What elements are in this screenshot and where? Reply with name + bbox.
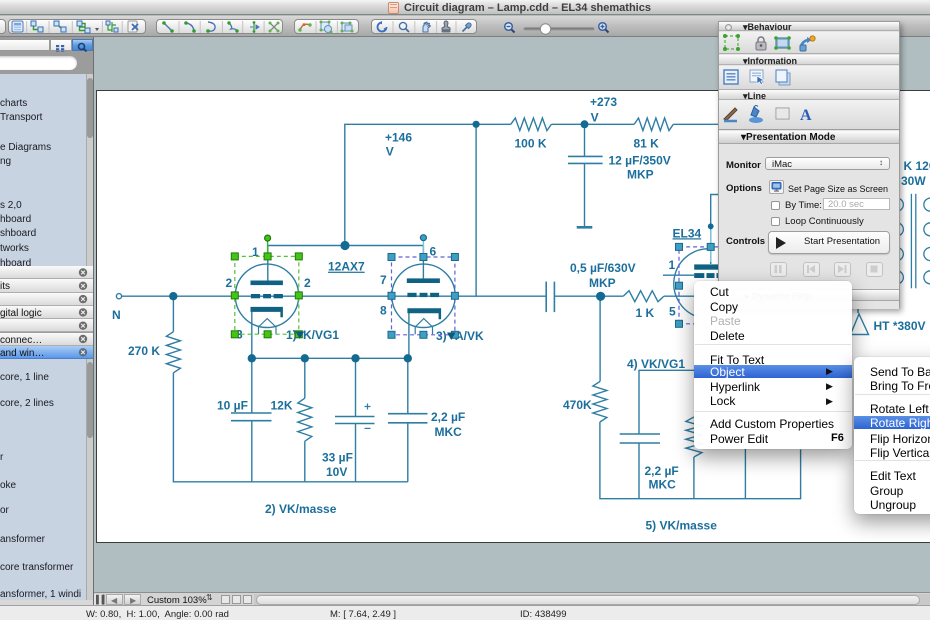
- svg-text:30W: 30W: [901, 174, 926, 188]
- selection V2 rotation stem: [422, 241, 424, 257]
- wire plate rail y245: [268, 245, 424, 247]
- tube V1 heater chevron: [259, 319, 277, 335]
- svg-text:MKP: MKP: [589, 276, 616, 290]
- tube V2 grid dashes: [407, 293, 416, 297]
- wire C 0.5uF to node: [555, 295, 601, 297]
- wire 33uF bottom: [355, 424, 357, 482]
- wire input node down to 270K: [172, 296, 174, 332]
- sidebar: [0, 37, 94, 604]
- svg-text:270 K: 270 K: [128, 344, 160, 358]
- connector zigzag: [77, 21, 99, 33]
- node dot cath1: [248, 354, 256, 362]
- svg-text:MKP: MKP: [627, 168, 654, 182]
- wire 270K to bottom left rail: [173, 373, 407, 482]
- svg-text:V: V: [591, 111, 599, 125]
- svg-text:7: 7: [380, 273, 387, 287]
- svg-text:0,5 µF/630V: 0,5 µF/630V: [570, 261, 636, 275]
- tube V2 12AX7b circle: [392, 264, 455, 327]
- svg-text:MKC: MKC: [649, 478, 677, 492]
- wire left plate lead: [267, 246, 269, 281]
- wire EL34 top cap: [711, 195, 719, 265]
- svg-text:+273: +273: [590, 95, 617, 109]
- Presentation Mode section: [719, 131, 899, 144]
- tube V2 cathode lead: [408, 311, 410, 358]
- selection V1 rotation stem: [267, 241, 269, 256]
- cathode arrow V2: [447, 333, 456, 341]
- wire 100K to node273: [551, 123, 584, 125]
- wire 470K to bottom rail: [600, 422, 639, 499]
- node dot cath3: [351, 354, 359, 362]
- wire cathode resistor to rail: [693, 457, 695, 499]
- tube V2 plate bar: [407, 278, 440, 283]
- wire vertical 476 down: [475, 124, 477, 296]
- curve tool: [184, 21, 196, 33]
- Dynamic Help collapsed: [719, 289, 899, 301]
- wire node to 1K: [601, 295, 624, 297]
- wire 12K top: [304, 358, 306, 398]
- submenu: [854, 357, 930, 514]
- floating palette: [718, 21, 900, 309]
- svg-text:+146: +146: [385, 131, 412, 145]
- svg-text:81 K: 81 K: [634, 137, 660, 151]
- capacitor C 33uF/10V polarized: [335, 416, 375, 418]
- svg-text:470K: 470K: [563, 398, 592, 412]
- svg-text:10 µF: 10 µF: [217, 399, 248, 413]
- wire C 12uF to ground: [584, 164, 586, 227]
- segmented control: [0, 39, 50, 51]
- connector elbow: [31, 21, 43, 32]
- node dot plate rail: [340, 241, 349, 250]
- sidebar right border: [93, 37, 94, 605]
- selection V3 dashed box: [679, 247, 719, 324]
- connector straight: [54, 21, 66, 32]
- bezier tool: [227, 21, 238, 32]
- terminal input N: [116, 294, 121, 299]
- svg-text:100 K: 100 K: [515, 137, 547, 151]
- svg-text:K/VG1: K/VG1: [303, 328, 339, 342]
- node dot cath2: [301, 354, 309, 362]
- svg-text:EL34: EL34: [673, 226, 702, 240]
- capacitor C 10uF: [231, 412, 272, 414]
- resistor R 81K: [634, 118, 673, 131]
- svg-text:2) VK/masse: 2) VK/masse: [265, 502, 337, 516]
- wire 33uF top: [355, 358, 357, 416]
- svg-text:3): 3): [436, 329, 447, 343]
- polarity plus 33uF: [365, 404, 371, 410]
- wire bottom rail right: [639, 450, 801, 499]
- wire 12K bottom: [304, 441, 306, 482]
- resistor R 100K: [511, 118, 552, 131]
- white page: [96, 90, 930, 543]
- window icon: [12, 21, 23, 32]
- capacitor C 12uF/350V: [568, 155, 603, 157]
- svg-text:N: N: [112, 308, 121, 322]
- magnifier: [399, 22, 409, 32]
- svg-text:V: V: [386, 145, 394, 159]
- resistor R 470K: [593, 382, 607, 423]
- tube V2 cathode bar: [407, 308, 441, 319]
- node dot input: [169, 292, 177, 300]
- wire node273 down to C 12uF: [584, 124, 586, 156]
- list top: [0, 74, 86, 266]
- cathode arrow V1: [296, 332, 305, 340]
- wire grid tap 4): [639, 370, 694, 434]
- selection V1 handles: [231, 253, 302, 338]
- tube V1 plate bar: [251, 281, 283, 286]
- slider: [525, 27, 593, 30]
- node dot EL34 top: [708, 223, 714, 229]
- wire node273 to 81K: [585, 123, 635, 125]
- wire input rail: [121, 295, 476, 297]
- search pill: [0, 52, 94, 74]
- line tool: [162, 21, 174, 33]
- section header rows: [0, 266, 94, 359]
- svg-text:HT *380V: HT *380V: [874, 319, 926, 333]
- svg-text:5) VK/masse: 5) VK/masse: [646, 519, 718, 533]
- hand: [423, 22, 430, 32]
- svg-text:5: 5: [669, 305, 676, 319]
- capacitor C 2.2uF MKC right: [620, 433, 660, 435]
- scissors: [269, 22, 280, 33]
- node dot cath4: [404, 354, 412, 362]
- node dot 0.5uF out: [596, 292, 605, 301]
- split tool: [250, 21, 259, 33]
- wire C 2.2uF to bottom rail: [638, 443, 640, 499]
- capacitor C 0.5uF/630V: [545, 282, 547, 313]
- selection V3 handles: [676, 243, 715, 327]
- resistor R 270K: [166, 332, 180, 373]
- resistor R 1K: [623, 291, 664, 302]
- wire top rail: [345, 124, 476, 244]
- eyedropper: [463, 23, 472, 32]
- selection V1 dashed box: [235, 256, 299, 334]
- title bar: [0, 0, 930, 15]
- reshape 2: [320, 21, 333, 34]
- tube V1 grid dashes: [251, 294, 260, 298]
- selection V2 handles: [388, 254, 458, 339]
- transformer T1 core: [910, 194, 912, 288]
- svg-text:K 120: K 120: [904, 159, 930, 173]
- selection V1 rotation knob: [265, 235, 271, 241]
- tube V1 12AX7a circle: [235, 264, 298, 327]
- resistor R 12K: [298, 398, 312, 441]
- zoom minus magnifier: [505, 23, 515, 33]
- tube V3 EL34 circle arc: [674, 249, 710, 317]
- svg-text:10V: 10V: [326, 465, 347, 479]
- zoom plus magnifier: [599, 23, 609, 33]
- transformer T1 right winding: [924, 198, 930, 284]
- wire 2.2uF left top: [407, 358, 409, 413]
- bottom scrollbar row: [94, 592, 930, 605]
- resistor EL34 cathode hidden: [686, 417, 702, 457]
- terminal HT triangle: [851, 314, 869, 335]
- svg-text:1: 1: [669, 258, 676, 272]
- svg-text:MKC: MKC: [435, 425, 463, 439]
- reshape 3: [341, 22, 354, 33]
- selection V3 rotation stem: [710, 230, 712, 263]
- selection V2 rotation knob: [420, 235, 426, 241]
- svg-text:8: 8: [380, 304, 387, 318]
- wire node476 to 100K: [476, 123, 511, 125]
- wire 476 corner to C 0.5uF: [476, 295, 546, 297]
- svg-text:33 µF: 33 µF: [322, 451, 353, 465]
- tube V3 grid dashes: [694, 273, 704, 278]
- wire C 10uF to rail: [251, 421, 253, 482]
- status bar: [0, 605, 930, 620]
- tube V2 heater chevron: [415, 319, 432, 335]
- wire left cathode down: [251, 311, 253, 413]
- wire hidden cap to rail: [744, 449, 746, 499]
- svg-text:12 µF/350V: 12 µF/350V: [609, 154, 671, 168]
- sidebar scrollbar: [86, 74, 94, 266]
- toolbar: [0, 16, 930, 37]
- capacitor C 2.2uF MKC left: [388, 413, 428, 415]
- rotate: [378, 21, 387, 32]
- connector tree: [106, 21, 118, 32]
- wire HT stub: [857, 302, 859, 313]
- delete connector: [128, 21, 138, 32]
- ground: [577, 226, 593, 229]
- svg-text:A/VK: A/VK: [455, 329, 484, 343]
- svg-text:12K: 12K: [271, 399, 293, 413]
- stamp: [442, 21, 451, 33]
- svg-text:12AX7: 12AX7: [328, 260, 365, 274]
- transformer T1 left winding: [897, 198, 904, 284]
- wire 1K to EL34 grid: [664, 295, 694, 297]
- context menu: [694, 281, 852, 449]
- reshape 1: [298, 23, 311, 32]
- tube V1 cathode bar: [251, 307, 283, 317]
- wire right plate lead: [422, 246, 424, 279]
- arc tool: [206, 22, 215, 33]
- svg-text:1 K: 1 K: [636, 306, 655, 320]
- svg-text:2,2 µF: 2,2 µF: [431, 410, 465, 424]
- svg-text:4) VK/VG1: 4) VK/VG1: [627, 357, 685, 371]
- node dot 273: [581, 120, 589, 128]
- wire 2.2uF left bottom: [407, 423, 409, 482]
- wire 81K to palette: [673, 123, 719, 125]
- svg-text:2: 2: [304, 276, 311, 290]
- svg-text:2,2 µF: 2,2 µF: [645, 464, 679, 478]
- tube V3 plate bar: [694, 264, 718, 269]
- polarity minus 33uF: [365, 427, 371, 429]
- node dot 476: [473, 121, 480, 128]
- wire cathode rail y358: [252, 357, 408, 359]
- wire node600 down to 470K: [599, 296, 601, 381]
- svg-text:A: A: [800, 107, 812, 124]
- list bottom: [0, 359, 86, 600]
- selection V2 dashed box: [392, 257, 455, 335]
- svg-text:2: 2: [226, 276, 233, 290]
- tube V3 pin1 stub: [663, 274, 694, 276]
